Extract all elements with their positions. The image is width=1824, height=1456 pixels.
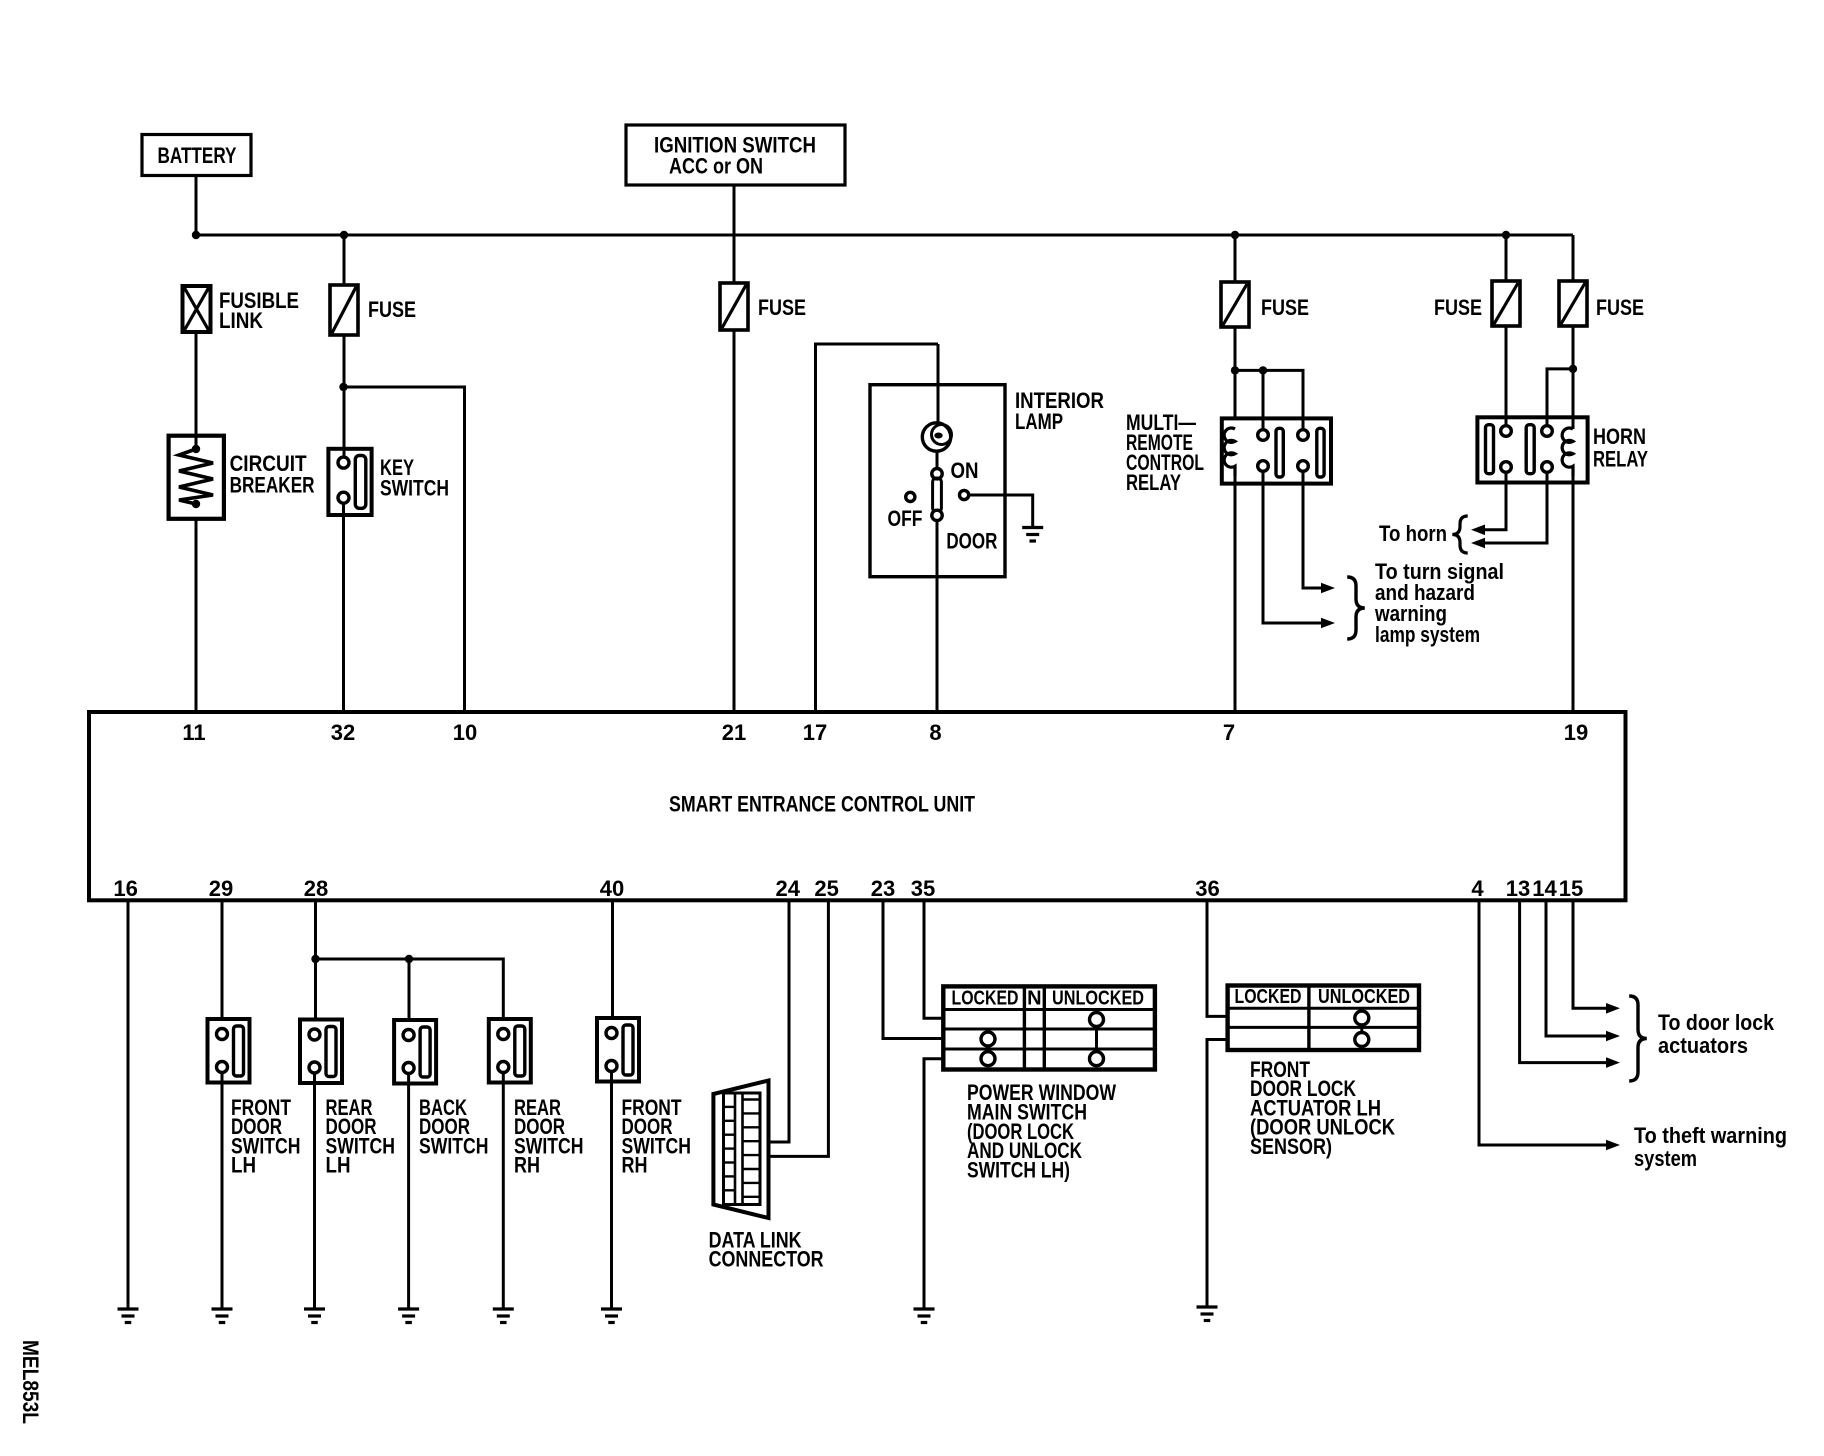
wire rear door switch RH to ground bbox=[502, 1072, 505, 1308]
wire battery to bus bbox=[195, 176, 198, 236]
fuse F4 (horn feed) bbox=[1492, 281, 1520, 326]
wire bus to fuse F3 bbox=[1234, 235, 1237, 282]
svg-text:FUSE: FUSE bbox=[1261, 295, 1309, 320]
wire pin 36 to door lock actuator bbox=[1207, 900, 1228, 1016]
arrow to turn signal 1 bbox=[1321, 583, 1335, 594]
relay U2 contact bar 2 bbox=[1526, 425, 1534, 474]
wire fusible link to circuit breaker bbox=[195, 332, 198, 449]
relay U2 pin 4 bbox=[1542, 462, 1553, 473]
wire relay top pins bbox=[1235, 370, 1303, 430]
svg-text:19: 19 bbox=[1564, 720, 1588, 745]
smart entrance control unit box bbox=[89, 712, 1626, 900]
svg-text:13: 13 bbox=[1506, 876, 1530, 901]
key switch box bbox=[328, 449, 371, 515]
svg-text:15: 15 bbox=[1559, 876, 1583, 901]
wire key switch to pin 32 bbox=[342, 503, 345, 712]
wire pin 24 to data link connector bbox=[759, 900, 789, 1142]
svg-text:LOCKED: LOCKED bbox=[952, 988, 1019, 1010]
svg-text:FUSE: FUSE bbox=[1434, 295, 1482, 320]
svg-text:SWITCH: SWITCH bbox=[419, 1133, 489, 1158]
svg-text:UNLOCKED: UNLOCKED bbox=[1052, 988, 1144, 1010]
wire bus to fuse F4 bbox=[1505, 235, 1508, 281]
relay U1 coil bbox=[1224, 428, 1235, 476]
wire fuse F1 down bbox=[343, 335, 346, 457]
arrow door lock 3 bbox=[1606, 1057, 1620, 1068]
svg-text:CONNECTOR: CONNECTOR bbox=[709, 1247, 824, 1272]
lamp switch bar bbox=[933, 478, 942, 512]
arrow door lock 2 bbox=[1606, 1031, 1620, 1042]
wire pin 25 to data link connector bbox=[766, 900, 828, 1156]
svg-text:29: 29 bbox=[209, 876, 233, 901]
svg-text:8: 8 bbox=[929, 720, 941, 745]
junction node key-switch branch bbox=[339, 383, 347, 391]
svg-text:25: 25 bbox=[814, 876, 838, 901]
wire door lock actuator to ground bbox=[1207, 1040, 1228, 1307]
wire pin 4 to theft warning bbox=[1479, 900, 1606, 1145]
front door switch LH S1 bbox=[208, 1019, 250, 1083]
svg-text:16: 16 bbox=[113, 876, 137, 901]
junction node horn coil bbox=[1569, 365, 1577, 373]
svg-text:RELAY: RELAY bbox=[1126, 470, 1181, 495]
svg-text:SMART ENTRANCE CONTROL UNIT: SMART ENTRANCE CONTROL UNIT bbox=[669, 792, 975, 817]
wire branch to pin 10 bbox=[344, 387, 465, 712]
wire pin 14 to door lock actuators bbox=[1546, 900, 1606, 1036]
wire to horn relay pin top-mid bbox=[1547, 369, 1573, 428]
wire fuse F3 down bbox=[1234, 327, 1237, 420]
svg-text:14: 14 bbox=[1532, 876, 1557, 901]
ground (pin 16) bbox=[118, 1309, 139, 1323]
wire horn relay coil to pin 19 bbox=[1572, 476, 1575, 712]
svg-text:system: system bbox=[1634, 1146, 1697, 1171]
door lock actuator contact link bbox=[1360, 1021, 1363, 1036]
data link connector shell bbox=[713, 1081, 768, 1219]
svg-text:LH: LH bbox=[231, 1153, 256, 1178]
relay U2 coil bbox=[1562, 428, 1573, 476]
arrow theft warning bbox=[1606, 1140, 1620, 1151]
ground (interior lamp) bbox=[1022, 528, 1043, 542]
svg-text:RH: RH bbox=[622, 1153, 648, 1178]
label HORN RELAY bbox=[1593, 424, 1648, 472]
svg-text:MEL853L: MEL853L bbox=[18, 1340, 43, 1424]
wire pin 28 down bbox=[314, 900, 317, 1019]
relay U1 pin 2 bbox=[1258, 461, 1269, 472]
lamp switch contact DOOR (bottom) bbox=[932, 510, 942, 520]
ground (rear door switch RH) bbox=[493, 1309, 514, 1323]
relay U1 contact bar 1 bbox=[1276, 428, 1283, 477]
svg-text:4: 4 bbox=[1471, 876, 1484, 901]
wire bulb to switch bbox=[936, 451, 939, 469]
label KEY SWITCH bbox=[380, 455, 449, 501]
power window main switch table bbox=[943, 986, 1155, 1069]
wire lamp feed down bbox=[937, 344, 940, 424]
ground (back door switch) bbox=[398, 1309, 419, 1323]
relay U1 pin 3 bbox=[1298, 430, 1309, 441]
circuit breaker box bbox=[169, 436, 224, 519]
interior lamp box bbox=[870, 385, 1005, 577]
svg-text:23: 23 bbox=[871, 876, 895, 901]
svg-text:17: 17 bbox=[803, 720, 827, 745]
wire pin 13 to door lock actuators bbox=[1520, 900, 1606, 1063]
wire front door switch RH to ground bbox=[610, 1071, 613, 1308]
wire to relay pin top-left bbox=[1262, 370, 1265, 430]
back door switch S3 bbox=[394, 1020, 436, 1084]
arrow to turn signal 2 bbox=[1321, 618, 1335, 629]
junction node bus/fuse-32 bbox=[340, 231, 348, 239]
wire power window switch to ground bbox=[924, 1059, 943, 1308]
wire rear/back door switch branch bbox=[316, 959, 504, 1019]
svg-text:SWITCH: SWITCH bbox=[380, 476, 449, 501]
relay U2 contact bar 1 bbox=[1486, 425, 1494, 474]
junction node bus/fuse-horn bbox=[1502, 231, 1510, 239]
label FUSIBLE LINK bbox=[219, 288, 299, 333]
rear door switch LH S2 bbox=[300, 1020, 342, 1084]
svg-text:FUSE: FUSE bbox=[758, 295, 806, 320]
lamp bulb bbox=[922, 423, 951, 451]
wire pin 17 riser bbox=[816, 344, 939, 712]
svg-text:BREAKER: BREAKER bbox=[230, 473, 315, 498]
door lock actuator contact 1 bbox=[1355, 1011, 1369, 1025]
svg-text:To door lock: To door lock bbox=[1658, 1010, 1775, 1035]
wire ignition switch down bbox=[733, 185, 736, 283]
bus wire (battery feed) bbox=[196, 234, 1573, 237]
wire circuit breaker to pin 11 bbox=[195, 519, 198, 712]
svg-text:RELAY: RELAY bbox=[1593, 447, 1648, 472]
svg-text:lamp system: lamp system bbox=[1375, 622, 1480, 647]
fuse F5 (horn relay coil feed) bbox=[1559, 281, 1587, 326]
svg-text:FUSE: FUSE bbox=[368, 297, 416, 322]
svg-text:N: N bbox=[1027, 988, 1041, 1010]
arrow door lock 1 bbox=[1606, 1003, 1620, 1014]
ground (door lock actuator) bbox=[1197, 1307, 1218, 1321]
svg-text:DOOR: DOOR bbox=[946, 529, 997, 554]
horn relay box U2 bbox=[1477, 417, 1587, 482]
fuse F1 (key switch feed) bbox=[330, 285, 358, 335]
relay U1 contact bar 2 bbox=[1317, 428, 1324, 477]
junction node relay feed B bbox=[1259, 366, 1267, 374]
fuse F3 (multi-remote relay feed) bbox=[1221, 282, 1249, 327]
svg-text:BATTERY: BATTERY bbox=[158, 143, 237, 168]
relay U1 pin 1 bbox=[1258, 430, 1269, 441]
battery box B+ bbox=[142, 135, 251, 176]
svg-text:28: 28 bbox=[304, 876, 328, 901]
svg-text:To horn: To horn bbox=[1379, 521, 1447, 546]
label To theft warning system bbox=[1634, 1123, 1787, 1171]
svg-text:RH: RH bbox=[514, 1153, 540, 1178]
power window switch contact link bbox=[1095, 1023, 1098, 1054]
rear door switch RH S4 bbox=[489, 1019, 531, 1083]
junction node battery/bus bbox=[192, 231, 200, 239]
svg-text:LAMP: LAMP bbox=[1015, 409, 1063, 434]
svg-text:35: 35 bbox=[911, 876, 935, 901]
door lock actuator header labels bbox=[1235, 986, 1411, 1008]
ground (front door switch LH) bbox=[212, 1309, 233, 1323]
wire pin 16 to ground bbox=[127, 900, 130, 1308]
wire lamp switch to pin 8 bbox=[936, 521, 939, 712]
svg-text:SENSOR): SENSOR) bbox=[1250, 1134, 1332, 1159]
svg-text:40: 40 bbox=[600, 876, 624, 901]
svg-text:21: 21 bbox=[722, 720, 746, 745]
multi-remote control relay box U1 bbox=[1222, 418, 1331, 483]
svg-text:LINK: LINK bbox=[219, 308, 263, 333]
door lock actuator contact 2 bbox=[1355, 1033, 1369, 1047]
lamp switch contact ON-right bbox=[960, 490, 969, 499]
circuit breaker top node bbox=[192, 445, 200, 453]
relay U2 pin 3 bbox=[1542, 426, 1553, 437]
svg-text:OFF: OFF bbox=[888, 506, 923, 531]
svg-text:actuators: actuators bbox=[1658, 1033, 1748, 1058]
wire fuse F2 to pin 21 bbox=[733, 330, 736, 712]
relay U1 pin 4 bbox=[1298, 461, 1309, 472]
power window switch header labels bbox=[952, 988, 1145, 1010]
svg-text:HORN: HORN bbox=[1593, 424, 1646, 449]
relay U2 pin 1 bbox=[1501, 426, 1512, 437]
wire relay U1 coil to pin 7 bbox=[1234, 476, 1237, 712]
brace to horn bbox=[1452, 516, 1467, 553]
brace turn signal bbox=[1347, 577, 1365, 639]
brace door lock actuators bbox=[1629, 996, 1647, 1081]
label INTERIOR LAMP bbox=[1015, 388, 1104, 434]
power window switch contact link2 bbox=[987, 1045, 990, 1052]
svg-text:UNLOCKED: UNLOCKED bbox=[1318, 986, 1410, 1008]
wire pin 40 to front door switch RH bbox=[611, 900, 614, 1018]
wire pin 35 to power window switch bbox=[924, 900, 943, 1018]
wire pin 23 to power window switch bbox=[883, 900, 943, 1039]
junction node branch 28b bbox=[405, 955, 413, 963]
arrow to horn 1 bbox=[1471, 525, 1485, 536]
svg-text:32: 32 bbox=[331, 720, 355, 745]
ignition switch box bbox=[626, 125, 845, 185]
power window switch contact l1 bbox=[981, 1032, 995, 1046]
svg-text:LOCKED: LOCKED bbox=[1235, 986, 1302, 1008]
wire lamp to ground bbox=[969, 495, 1033, 528]
label DATA LINK CONNECTOR bbox=[709, 1228, 824, 1272]
junction node bus/fuse-7 bbox=[1231, 231, 1239, 239]
wire bus to fuse F1 bbox=[343, 235, 346, 285]
wire front door switch LH to ground bbox=[221, 1072, 224, 1308]
svg-text:ON: ON bbox=[951, 458, 979, 483]
ground (front door switch RH) bbox=[601, 1309, 622, 1323]
power window switch contact u1 bbox=[1090, 1013, 1104, 1027]
circuit breaker bottom node bbox=[192, 500, 200, 508]
junction node relay feed A bbox=[1231, 366, 1239, 374]
wire back door switch to ground bbox=[407, 1073, 410, 1308]
svg-text:FUSE: FUSE bbox=[1596, 295, 1644, 320]
circuit breaker element (zigzag) bbox=[179, 449, 213, 504]
label To door lock actuators bbox=[1658, 1010, 1775, 1058]
power window switch contact u2 bbox=[1090, 1052, 1104, 1066]
wire horn relay to horn arrow 2 bbox=[1485, 472, 1547, 543]
svg-text:24: 24 bbox=[776, 876, 801, 901]
wire pin 15 to door lock actuators bbox=[1573, 900, 1606, 1008]
ground (rear door switch LH) bbox=[304, 1309, 325, 1323]
arrow to horn 2 bbox=[1471, 538, 1485, 549]
wire branch to back door switch bbox=[408, 959, 411, 1020]
svg-text:ACC or ON: ACC or ON bbox=[669, 154, 763, 179]
fuse F2 (interior lamp feed) bbox=[720, 283, 748, 330]
junction node branch 28a bbox=[311, 955, 319, 963]
label CIRCUIT BREAKER bbox=[230, 451, 315, 498]
wire rear door switch LH to ground bbox=[313, 1072, 316, 1308]
svg-text:36: 36 bbox=[1195, 876, 1219, 901]
wire bus corner to fuse F5 bbox=[1572, 235, 1575, 281]
fusible link bbox=[183, 286, 211, 332]
front door lock actuator table bbox=[1228, 986, 1419, 1051]
relay U2 pin 2 bbox=[1501, 462, 1512, 473]
svg-text:11: 11 bbox=[182, 720, 205, 745]
front door switch RH S5 bbox=[597, 1018, 639, 1082]
wire horn relay to horn arrow 1 bbox=[1485, 472, 1506, 530]
data link connector pin grid bbox=[724, 1093, 761, 1205]
label MULTI-REMOTE CONTROL RELAY bbox=[1126, 410, 1204, 495]
svg-text:SWITCH LH): SWITCH LH) bbox=[967, 1158, 1070, 1183]
ground (power window switch) bbox=[914, 1309, 935, 1323]
wire relay U1 to turn-signal arrow 2 bbox=[1263, 471, 1321, 623]
wire fuse F4 to horn relay bbox=[1505, 326, 1508, 428]
svg-text:To theft warning: To theft warning bbox=[1634, 1123, 1787, 1148]
svg-text:7: 7 bbox=[1223, 720, 1235, 745]
wire pin 29 to front door switch LH bbox=[221, 900, 224, 1019]
wire relay U1 to turn-signal arrow 1 bbox=[1303, 471, 1321, 588]
svg-text:LH: LH bbox=[326, 1153, 351, 1178]
lamp switch contact ON bbox=[932, 469, 942, 479]
wire fuse F5 down bbox=[1572, 326, 1575, 429]
lamp switch contact OFF bbox=[906, 492, 915, 501]
power window switch contact l2 bbox=[981, 1052, 995, 1066]
svg-text:10: 10 bbox=[453, 720, 477, 745]
